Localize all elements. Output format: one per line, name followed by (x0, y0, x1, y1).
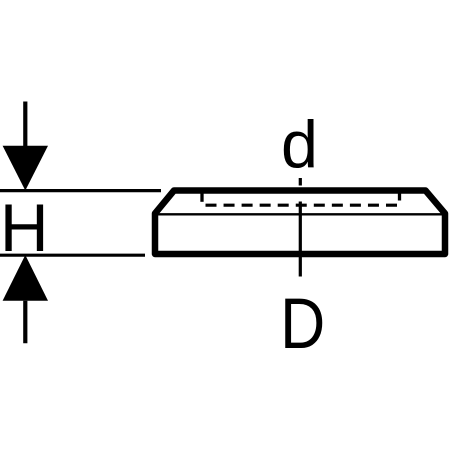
down arrow stem (23, 102, 27, 147)
svg-text:H: H (0, 191, 49, 266)
centerline upper tick (299, 178, 302, 186)
down arrow head (3, 146, 48, 191)
d left tick (200, 194, 203, 202)
centerline main segment (299, 202, 302, 277)
d right tick (398, 194, 401, 201)
svg-text:d: d (281, 108, 318, 182)
hidden diameter dashed line (206, 204, 398, 207)
dimension H top extension line (0, 189, 161, 192)
top face edge line (156, 213, 443, 215)
svg-text:D: D (280, 284, 325, 364)
up arrow head (3, 255, 48, 301)
up arrow stem (23, 301, 27, 343)
dimension H bottom extension line (0, 254, 145, 257)
part outline (side view of tapered disc) (155, 191, 445, 255)
